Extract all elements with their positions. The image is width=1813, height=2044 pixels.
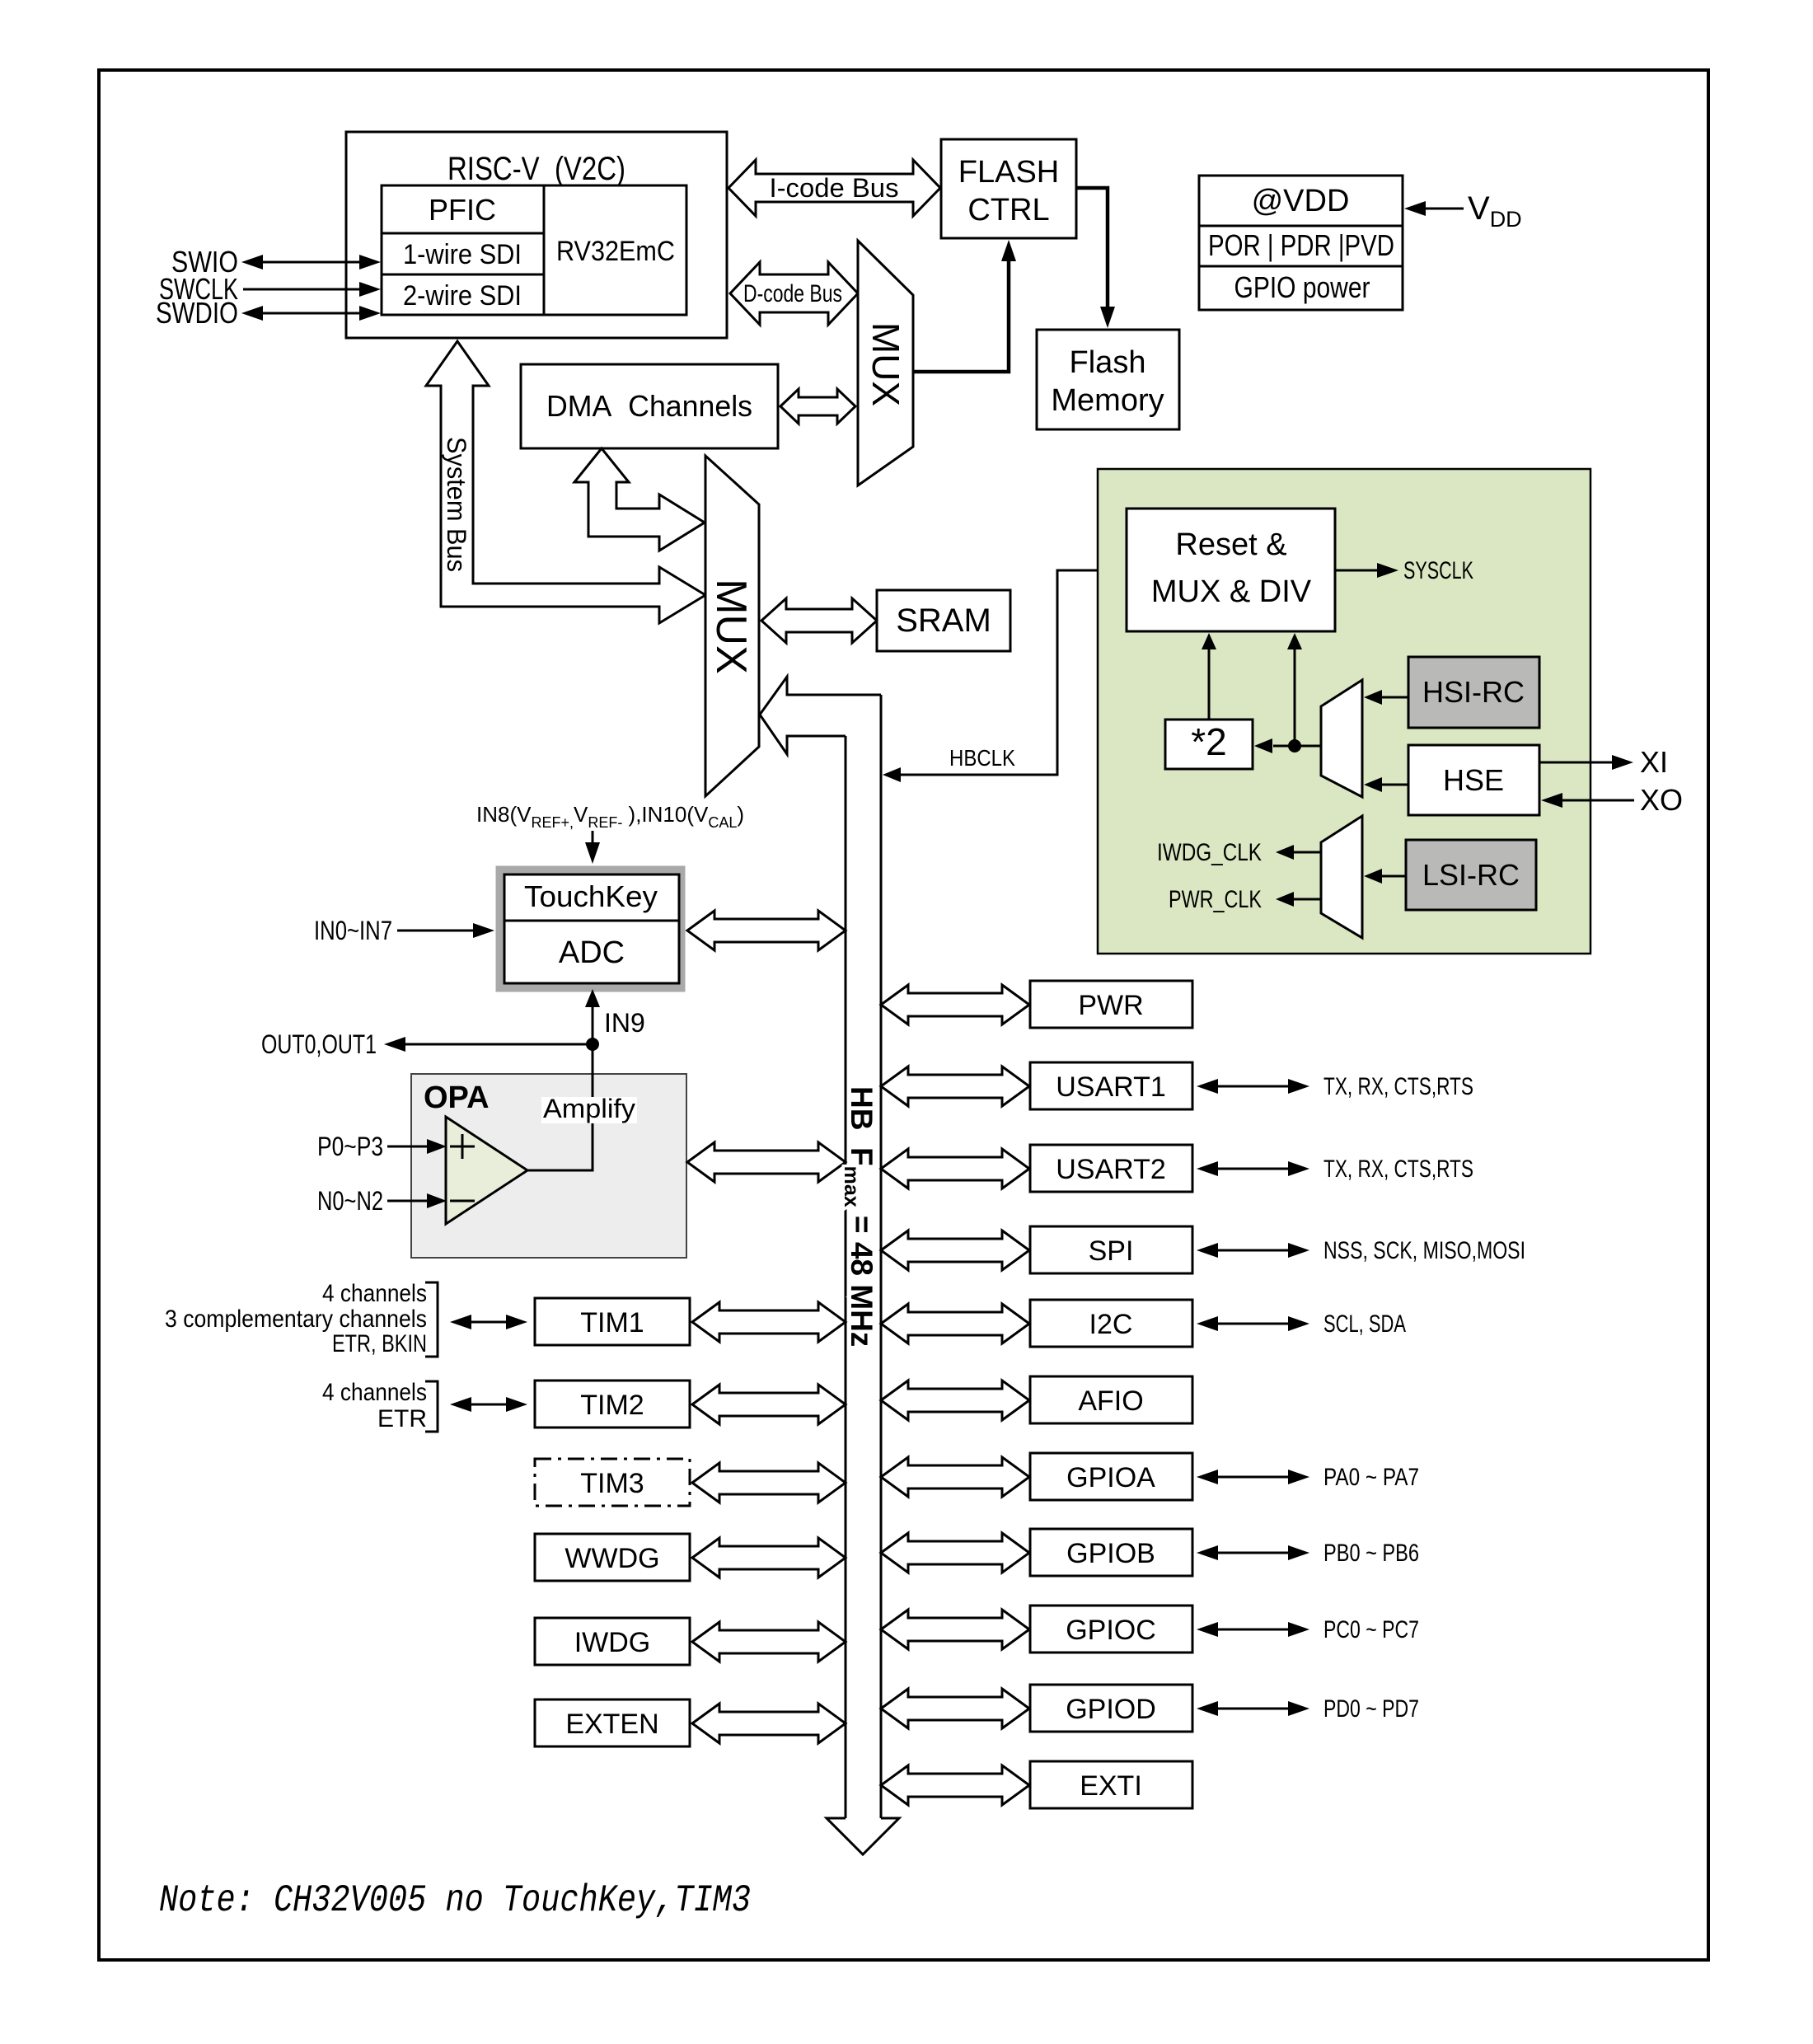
wire HSE to clock mux — [1364, 777, 1408, 792]
svg-text:WWDG: WWDG — [565, 1543, 659, 1574]
block USART2 — [1030, 1145, 1192, 1192]
svg-text:@VDD: @VDD — [1252, 184, 1350, 218]
svg-text:HSI-RC: HSI-RC — [1422, 675, 1525, 709]
svg-text:XI: XI — [1640, 745, 1668, 779]
block IWDG — [535, 1618, 690, 1665]
svg-text:USART2: USART2 — [1056, 1154, 1166, 1185]
arrow PWR to HB bus — [881, 985, 1029, 1024]
block TouchKey / ADC — [496, 866, 685, 992]
arrow USART2 to HB bus — [881, 1149, 1029, 1188]
svg-text:PB0 ~ PB6: PB0 ~ PB6 — [1323, 1540, 1419, 1567]
block RV32EmC core — [544, 185, 686, 315]
wire PWR_CLK output — [1169, 886, 1321, 913]
svg-text:4 channels: 4 channels — [322, 1379, 427, 1406]
wire IN0~IN7 input — [314, 916, 494, 945]
svg-text:TIM2: TIM2 — [580, 1390, 644, 1421]
svg-text:TX, RX, CTS,RTS: TX, RX, CTS,RTS — [1323, 1156, 1473, 1183]
svg-text:SCL, SDA: SCL, SDA — [1323, 1310, 1406, 1338]
block OPA — [411, 1074, 686, 1258]
svg-text:*2: *2 — [1191, 720, 1226, 763]
block FLASH CTRL — [941, 139, 1076, 238]
arrow TIM1 to HB bus — [692, 1302, 846, 1342]
svg-text:MUX: MUX — [707, 579, 755, 674]
wire TIM1 channel signals — [450, 1315, 527, 1329]
svg-text:IN0~IN7: IN0~IN7 — [314, 916, 392, 945]
block EXTEN — [535, 1699, 690, 1746]
op-amp OPA triangle — [446, 1117, 527, 1224]
block HSE — [1408, 745, 1539, 815]
wire GPIOC pins — [1197, 1616, 1419, 1643]
svg-text:XO: XO — [1640, 783, 1683, 817]
svg-text:EXTEN: EXTEN — [565, 1709, 658, 1740]
svg-text:ETR: ETR — [377, 1405, 427, 1432]
block GPIOC — [1030, 1606, 1192, 1653]
svg-text:OUT0,OUT1: OUT0,OUT1 — [261, 1029, 377, 1059]
wire GPIOA pins — [1197, 1464, 1419, 1491]
D-code Bus arrow — [730, 262, 858, 325]
block 1-wire SDI — [382, 233, 544, 274]
svg-text:FLASH: FLASH — [958, 155, 1059, 190]
svg-text:TIM1: TIM1 — [580, 1307, 644, 1338]
arrow TouchKey to HB bus — [687, 911, 846, 950]
block PWR — [1030, 981, 1192, 1028]
wire XI output — [1539, 745, 1668, 779]
arrow OPA to HB bus — [687, 1142, 846, 1182]
wire OUT0,OUT1 output — [261, 1029, 593, 1059]
clock system block (green) — [1098, 469, 1590, 954]
svg-text:P0~P3: P0~P3 — [317, 1132, 383, 1161]
svg-text:I-code Bus: I-code Bus — [770, 173, 899, 203]
wire D-code MUX to FLASH CTRL — [913, 240, 1016, 372]
svg-text:SRAM: SRAM — [896, 602, 991, 639]
block 2-wire SDI — [382, 274, 544, 315]
wire SWIO — [171, 245, 381, 279]
block AFIO — [1030, 1376, 1192, 1423]
arrow I2C to HB bus — [881, 1304, 1029, 1343]
mux HSI/HSE clock mux — [1321, 680, 1362, 797]
svg-text:D-code Bus: D-code Bus — [743, 280, 842, 307]
svg-text:IWDG_CLK: IWDG_CLK — [1157, 839, 1262, 866]
wire P0~P3 input — [317, 1132, 447, 1161]
wire GPIOB pins — [1197, 1540, 1419, 1567]
svg-text:TIM3: TIM3 — [580, 1468, 644, 1499]
svg-text:TX, RX, CTS,RTS: TX, RX, CTS,RTS — [1323, 1073, 1473, 1100]
svg-text:3 complementary channels: 3 complementary channels — [165, 1306, 427, 1333]
svg-text:System Bus: System Bus — [442, 437, 471, 572]
arrow GPIOA to HB bus — [881, 1457, 1029, 1497]
mux system MUX — [705, 456, 759, 796]
svg-text:Amplify: Amplify — [543, 1094, 635, 1123]
svg-text:DMA Channels: DMA Channels — [546, 389, 752, 423]
svg-text:SWDIO: SWDIO — [156, 296, 238, 330]
wire clock mux output to *2 and Reset block — [1254, 633, 1321, 753]
svg-text:Note: CH32V005 no TouchKey,TIM: Note: CH32V005 no TouchKey,TIM3 — [159, 1879, 751, 1922]
svg-text:GPIOB: GPIOB — [1066, 1538, 1155, 1569]
svg-text:4 channels: 4 channels — [322, 1280, 427, 1307]
svg-text:I2C: I2C — [1089, 1309, 1133, 1340]
block WWDG — [535, 1534, 690, 1581]
wire OPA output (Amplify) — [527, 1044, 637, 1170]
block LSI-RC — [1406, 840, 1536, 910]
svg-text:GPIOA: GPIOA — [1066, 1462, 1155, 1493]
svg-text:Memory: Memory — [1051, 383, 1164, 418]
wire TIM2 channel signals — [450, 1397, 527, 1412]
System Bus arrow — [426, 341, 705, 623]
I-code Bus arrow — [728, 160, 940, 216]
block SPI — [1030, 1226, 1192, 1273]
svg-text:2-wire SDI: 2-wire SDI — [403, 280, 522, 312]
svg-text:ADC: ADC — [559, 935, 625, 970]
block PFIC — [382, 185, 544, 233]
block DMA Channels — [521, 364, 778, 448]
bus HB vertical bus with arrow into MUX — [760, 677, 899, 1854]
label TIM1 channels bracket — [165, 1280, 438, 1357]
arrow SPI to HB bus — [881, 1231, 1029, 1270]
svg-text:OPA: OPA — [424, 1081, 490, 1115]
wire VDD input — [1404, 190, 1522, 232]
arrow DMA to D-code MUX — [780, 389, 855, 424]
arrow EXTEN to HB bus — [692, 1704, 846, 1743]
block power @VDD / POR PDR PVD / GPIO power — [1199, 176, 1403, 310]
block RISC-V (V2C) CPU — [346, 132, 727, 338]
svg-text:TouchKey: TouchKey — [524, 879, 658, 913]
arrow DMA to system MUX (L-shaped) — [574, 448, 705, 551]
wire SWCLK — [159, 272, 381, 306]
block GPIOB — [1030, 1529, 1192, 1576]
svg-text:SPI: SPI — [1089, 1235, 1134, 1267]
svg-text:LSI-RC: LSI-RC — [1422, 858, 1520, 892]
svg-text:Flash: Flash — [1070, 345, 1146, 380]
svg-text:GPIOD: GPIOD — [1066, 1694, 1156, 1725]
wire N0~N2 input — [317, 1186, 447, 1216]
block TIM3 — [535, 1459, 690, 1506]
svg-text:RV32EmC: RV32EmC — [556, 236, 675, 267]
wire LSI-RC to clock mux — [1364, 869, 1406, 884]
wire USART1 pins — [1197, 1073, 1473, 1100]
wire HSI-RC to clock mux — [1364, 690, 1408, 705]
block GPIOA — [1030, 1453, 1192, 1500]
arrow EXTI to HB bus — [881, 1765, 1029, 1805]
svg-text:GPIO power: GPIO power — [1234, 270, 1370, 304]
svg-text:GPIOC: GPIOC — [1066, 1615, 1156, 1646]
svg-text:AFIO: AFIO — [1078, 1385, 1143, 1417]
svg-text:HSE: HSE — [1443, 763, 1504, 797]
block Flash Memory — [1037, 330, 1179, 429]
svg-text:ETR, BKIN: ETR, BKIN — [332, 1330, 427, 1357]
svg-text:POR | PDR |PVD: POR | PDR |PVD — [1208, 228, 1394, 262]
mux LSI clock mux — [1321, 816, 1362, 938]
svg-text:CTRL: CTRL — [967, 193, 1049, 227]
arrow IWDG to HB bus — [692, 1622, 846, 1662]
svg-text:IWDG: IWDG — [574, 1627, 651, 1658]
wire GPIOD pins — [1197, 1695, 1419, 1723]
block TIM1 — [535, 1298, 690, 1345]
label IN8(VREF+,VREF-),IN10(VCAL) — [476, 802, 744, 831]
label TIM2 channels bracket — [322, 1379, 438, 1432]
wire HBCLK from clock block to bus — [883, 570, 1127, 782]
wire *2 to Reset block — [1202, 633, 1216, 720]
arrow WWDG to HB bus — [692, 1538, 846, 1578]
block TIM2 — [535, 1381, 690, 1428]
wire IN9 from OPA to ADC — [585, 989, 645, 1051]
svg-text:PD0 ~ PD7: PD0 ~ PD7 — [1323, 1695, 1419, 1723]
svg-text:USART1: USART1 — [1056, 1071, 1166, 1103]
wire SYSCLK output — [1335, 557, 1473, 584]
block *2 multiplier — [1165, 720, 1253, 769]
block SRAM — [877, 590, 1010, 651]
arrow TIM2 to HB bus — [692, 1385, 846, 1424]
arrow GPIOB to HB bus — [881, 1533, 1029, 1573]
svg-text:HBCLK: HBCLK — [949, 745, 1015, 771]
wire SWDIO — [156, 296, 381, 330]
wire IWDG_CLK output — [1157, 839, 1321, 866]
svg-text:PWR: PWR — [1078, 990, 1143, 1021]
label note CH32V005 — [159, 1879, 751, 1922]
arrow USART1 to HB bus — [881, 1067, 1029, 1106]
mux D-code MUX — [858, 241, 913, 485]
svg-text:1-wire SDI: 1-wire SDI — [403, 239, 522, 270]
block USART1 — [1030, 1062, 1192, 1109]
wire SPI pins — [1197, 1237, 1525, 1264]
svg-text:PWR_CLK: PWR_CLK — [1169, 886, 1262, 913]
wire USART2 pins — [1197, 1156, 1473, 1183]
svg-text:PFIC: PFIC — [429, 193, 496, 227]
arrow GPIOC to HB bus — [881, 1610, 1029, 1649]
wire IN8/IN10 into TouchKey — [585, 831, 600, 864]
arrow MUX to SRAM — [761, 598, 877, 643]
svg-text:MUX: MUX — [864, 322, 907, 406]
block HSI-RC — [1408, 657, 1539, 728]
arrow AFIO to HB bus — [881, 1381, 1029, 1420]
wire FLASH CTRL to Flash Memory — [1076, 188, 1115, 328]
label HB Fmax = 48 MHz — [840, 1086, 878, 1347]
svg-text:IN9: IN9 — [604, 1008, 645, 1038]
svg-text:N0~N2: N0~N2 — [317, 1186, 383, 1216]
svg-text:HB Fmax = 48 MHz: HB Fmax = 48 MHz — [840, 1086, 878, 1347]
svg-text:RISC-V (V2C): RISC-V (V2C) — [447, 151, 625, 187]
svg-text:PA0 ~ PA7: PA0 ~ PA7 — [1323, 1464, 1419, 1491]
block GPIOD — [1030, 1685, 1192, 1732]
block Reset & MUX & DIV — [1127, 509, 1335, 631]
svg-text:SYSCLK: SYSCLK — [1403, 557, 1473, 584]
block I2C — [1030, 1300, 1192, 1347]
block EXTI — [1030, 1761, 1192, 1808]
svg-text:MUX & DIV: MUX & DIV — [1151, 574, 1312, 609]
wire XO input — [1541, 783, 1683, 817]
svg-text:PC0 ~ PC7: PC0 ~ PC7 — [1323, 1616, 1419, 1643]
arrow GPIOD to HB bus — [881, 1689, 1029, 1728]
arrow TIM3 to HB bus — [692, 1463, 846, 1503]
wire I2C pins — [1197, 1310, 1406, 1338]
svg-text:Reset &: Reset & — [1175, 527, 1286, 562]
svg-text:EXTI: EXTI — [1080, 1770, 1142, 1802]
svg-text:NSS, SCK, MISO,MOSI: NSS, SCK, MISO,MOSI — [1323, 1237, 1525, 1264]
